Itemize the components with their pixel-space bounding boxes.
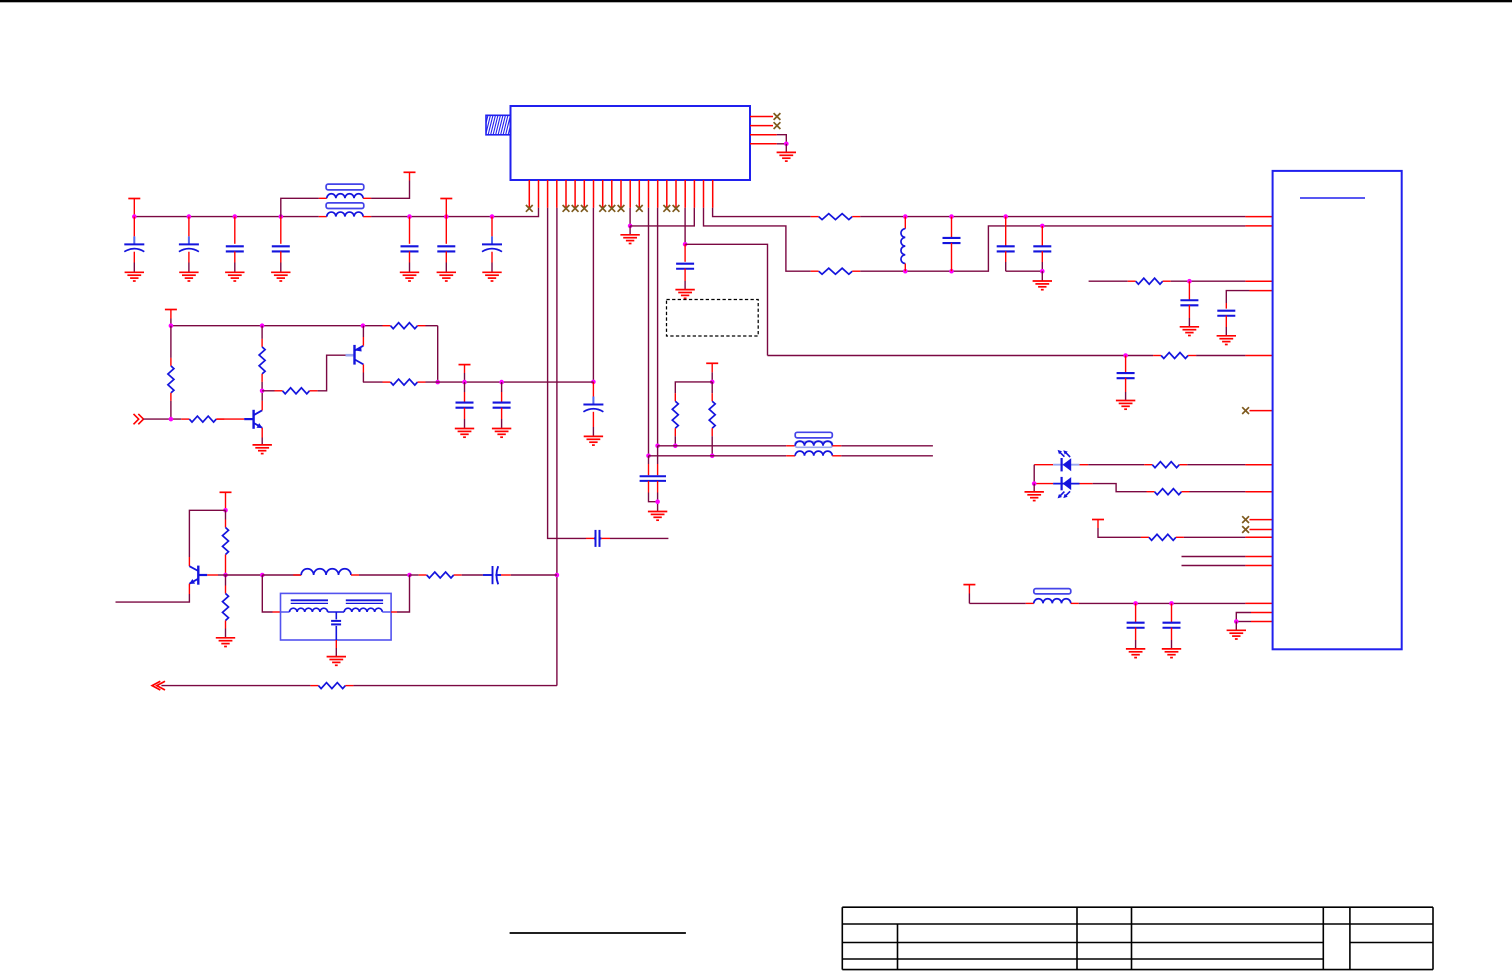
junction bottom bus C21 xyxy=(1169,601,1174,606)
ground right of U1 xyxy=(777,152,796,161)
U1 right pin 1 stub xyxy=(750,116,773,118)
capacitor C20 xyxy=(1135,603,1137,623)
wire bus2 from U1 pin20 to connector xyxy=(704,208,811,271)
wire net from U1 pin4 down to RX line xyxy=(556,208,558,686)
connector pin stub bottom bus xyxy=(1245,602,1272,604)
resistor R10 vertical xyxy=(170,326,172,358)
capacitor C13 from bus1 xyxy=(1005,217,1007,247)
ground below C16 xyxy=(455,429,474,438)
inductor L3 xyxy=(1034,599,1071,604)
connector NC pin stub y519 xyxy=(1250,519,1273,521)
ground below C21 xyxy=(1162,649,1181,658)
capacitor C23 xyxy=(1217,311,1235,316)
no-connect X on U1 bottom pin 6 xyxy=(572,205,579,212)
wire A right open end xyxy=(841,445,933,447)
transistor Q3 (NPN mirrored) xyxy=(189,566,207,585)
no-connect X on U1 bottom pin 16 xyxy=(663,205,670,212)
transformer T2 core bar xyxy=(795,432,832,438)
wire U1 pin14 down to filter wire B xyxy=(648,208,650,456)
capacitor C15 xyxy=(1125,356,1127,374)
wire power to Q3 collector xyxy=(189,510,225,557)
wire bottom bus xyxy=(969,602,1025,604)
wire rail right corner down xyxy=(437,326,439,382)
no-connect X y519 xyxy=(1242,516,1249,523)
junction rail-R12 xyxy=(260,323,265,328)
transistor Q2 (PNP) xyxy=(346,345,364,365)
no-connect X on U1 bottom pin 5 xyxy=(563,205,570,212)
wire C13 bottom to C14 bottom xyxy=(1006,270,1043,272)
T3 core lines left xyxy=(291,600,328,603)
ground below C4 xyxy=(271,272,290,281)
ground below C1 xyxy=(125,272,144,281)
resistor R12 vertical xyxy=(261,326,263,339)
junction rail-Q2 xyxy=(361,323,366,328)
junction pin4 net / C9 net xyxy=(555,573,560,578)
connector NC pin stub y410 xyxy=(1250,410,1273,412)
junction pin15/wireA xyxy=(655,444,660,449)
no-connect X on U1 bottom pin 10 xyxy=(608,205,615,212)
resistor R9 on lower run xyxy=(1153,355,1161,357)
connector ground pin A xyxy=(1251,612,1273,614)
wire RX line right to pin4 net xyxy=(353,685,557,687)
resistor R11 on rail right xyxy=(383,325,391,327)
ground below Q1 xyxy=(253,445,272,454)
junction bus2-C14 xyxy=(1040,224,1045,229)
junction mid power xyxy=(710,380,715,385)
transformer T2 winding B xyxy=(795,451,832,456)
ground below C18/C19 xyxy=(648,512,667,521)
junction D1/D2 ground net xyxy=(1032,481,1037,486)
inductor L2 between bus1 and bus2 xyxy=(904,217,906,229)
no-connect X on U1 right pin 2 xyxy=(774,122,781,129)
resistor R17 xyxy=(1144,464,1152,466)
junction pin12 ground net xyxy=(628,224,633,229)
wire pin18 net to right column xyxy=(685,244,767,355)
wire transistor rail xyxy=(171,325,383,327)
wire Q3 base to junction xyxy=(207,574,218,576)
wire R13 to Q2 base xyxy=(318,355,346,391)
junction bus2-C12 xyxy=(949,269,954,274)
junction C14 bottom xyxy=(1040,269,1045,274)
power flag Q3 block xyxy=(220,491,232,493)
capacitor C21 xyxy=(1171,603,1173,623)
ground below C7 xyxy=(482,272,501,281)
junction lower-run C15 xyxy=(1123,353,1128,358)
no-connect X on U1 bottom pin 1 xyxy=(526,205,533,212)
capacitor C4 xyxy=(280,217,282,244)
wire D1 left down to D2 junction xyxy=(1033,465,1035,484)
no-connect X on U1 bottom pin 9 xyxy=(599,205,606,212)
ground below C20 xyxy=(1126,649,1145,658)
wire U1 pin15 down to filter wire A xyxy=(657,208,659,446)
power flag VCC left xyxy=(128,198,140,200)
wire filter tap down to T3 xyxy=(262,575,272,612)
junction R20-C22 xyxy=(1187,279,1192,284)
transistor Q1 (NPN) xyxy=(244,410,262,429)
capacitor C17 xyxy=(501,382,503,392)
U1 bottom pins xyxy=(529,180,712,208)
wire bus1 from U1 pin21 to connector xyxy=(713,208,811,217)
resistor R7 on bus1 xyxy=(811,216,819,218)
wire R20 to connector xyxy=(1171,280,1246,282)
no-connect X on U1 right pin 1 xyxy=(774,113,781,120)
U1 right pin 4 stub xyxy=(750,143,777,145)
ground below C2 xyxy=(179,272,198,281)
no-connect X y410 xyxy=(1242,407,1249,414)
junction bus1-C12 xyxy=(949,214,954,219)
connector ground pin B xyxy=(1251,621,1273,623)
junction bus1-L2 xyxy=(903,214,908,219)
wire RX line xyxy=(161,685,310,687)
ground below C6 xyxy=(437,272,456,281)
connector J1 label underline xyxy=(1300,197,1365,199)
resistor R18 xyxy=(1147,491,1155,493)
ground below C17 xyxy=(492,429,511,438)
wire R17 to connector xyxy=(1187,464,1245,466)
wire Q2 emitter up to rail xyxy=(362,337,364,346)
resistor R16 vertical xyxy=(711,382,713,393)
no-connect X on U1 bottom pin 13 xyxy=(636,205,643,212)
ground below LEDs xyxy=(1025,492,1044,501)
wire D1 right to R17 xyxy=(1080,464,1089,466)
power flag VCC transistor rail xyxy=(165,309,177,311)
junction bottom bus C20 xyxy=(1133,601,1138,606)
ground below C10 xyxy=(584,436,603,445)
IC U1 body xyxy=(511,106,751,180)
wire Q1 emitter to ground xyxy=(261,428,263,438)
wire power flag to R19 xyxy=(1098,528,1141,537)
wire to ground xyxy=(785,144,787,153)
wire net from U1 pin8 down xyxy=(592,208,594,382)
transformer L1 core bar top xyxy=(326,184,364,190)
capacitor C16 xyxy=(464,382,466,392)
junction bus1-C13 xyxy=(1003,214,1008,219)
connector NC pin stub y529 xyxy=(1250,529,1273,531)
capacitor C10 (polarized) below pin8 net xyxy=(592,382,594,397)
power flag on output net xyxy=(459,364,471,366)
junction bus-C4 xyxy=(279,214,284,219)
capacitor C3 xyxy=(234,217,236,244)
no-connect X y529 xyxy=(1242,526,1249,533)
wire base junction to L4 xyxy=(226,574,263,576)
power flag mid resistors xyxy=(706,362,718,364)
inductor L3 core bar xyxy=(1034,589,1071,594)
wire R23 to C24 xyxy=(462,574,483,576)
resistor R8 on bus2 lower run xyxy=(811,270,819,272)
junction output-C16 xyxy=(462,380,467,385)
connector pin stub R19 net xyxy=(1245,536,1272,538)
wire rail right of R11 xyxy=(426,325,438,327)
capacitor C2 (polarized) xyxy=(188,217,190,237)
wire U1 pin12 to ground xyxy=(629,208,631,226)
wire output net to pin8 junction xyxy=(426,381,594,383)
input chevron arrow xyxy=(134,414,144,424)
capacitor C14 from bus2 xyxy=(1041,226,1043,247)
junction R16-wireB xyxy=(710,454,715,459)
capacitor C7 (polarized) xyxy=(491,217,493,237)
junction R12-Q1-R13 xyxy=(260,389,265,394)
junction Q3 power xyxy=(223,508,228,513)
resistor R13b lower to output xyxy=(363,381,383,383)
junction L4-R23-T3 xyxy=(407,573,412,578)
ground below C5 xyxy=(400,272,419,281)
node junction right of U1 xyxy=(784,142,789,147)
T3 core lines right xyxy=(346,600,383,603)
filter module T3 box xyxy=(281,593,392,640)
connector pin stub D1 net xyxy=(1245,464,1272,466)
wire U1 pin18 down xyxy=(684,208,686,245)
T3 winding right xyxy=(344,608,382,612)
series capacitor C24 (polarized) xyxy=(483,566,501,584)
transformer T2 winding A xyxy=(795,441,832,446)
series capacitor C8 xyxy=(596,530,600,547)
resistor R19 xyxy=(1141,536,1149,538)
wire input to R14 xyxy=(144,418,182,420)
no-connect X on U1 bottom pin 11 xyxy=(618,205,625,212)
wire Q2 collector down xyxy=(362,364,364,372)
capacitor C6 xyxy=(445,217,447,244)
power flag above L1 xyxy=(404,171,416,173)
capacitor C11 below pin18 junction xyxy=(684,244,686,261)
ground below C23 xyxy=(1217,336,1236,345)
junction R11-R13 output xyxy=(435,380,440,385)
power flag bottom bus xyxy=(963,584,975,586)
ground below R22 xyxy=(216,638,235,647)
junction bus-C3 xyxy=(233,214,238,219)
connector pin stub y281 xyxy=(1245,280,1272,282)
junction base net filter tap xyxy=(260,573,265,578)
junction bus-C1 xyxy=(132,214,137,219)
ground below T3 xyxy=(327,657,346,666)
ground below pin12 xyxy=(620,235,639,244)
connector pin stub bus1 xyxy=(1245,216,1272,218)
output chevron arrow left xyxy=(152,681,165,690)
wire VCC bus left of transformer xyxy=(134,216,318,218)
capacitor C5 xyxy=(409,217,411,244)
inductor L4 xyxy=(262,574,301,576)
junction connector ground xyxy=(1234,619,1239,624)
resistor R20 xyxy=(1128,280,1136,282)
no-connect X on U1 bottom pin 7 xyxy=(581,205,588,212)
T3 winding left xyxy=(281,611,290,613)
wire C24 to pin4 net xyxy=(511,574,557,576)
wire L4 to R23 xyxy=(359,574,410,576)
title block frame xyxy=(842,907,1433,969)
resistor R14 horizontal xyxy=(181,418,189,420)
wire VCC bus left (pin2 of U1 to left rail) xyxy=(371,208,538,217)
wire L3 to connector xyxy=(1079,602,1246,604)
capacitor C22 xyxy=(1188,281,1190,300)
top border bar xyxy=(0,0,1512,2)
wire pin18-net lower run to connector xyxy=(768,355,1154,357)
ground below C22 xyxy=(1180,327,1199,336)
transformer L1 secondary winding on bus xyxy=(319,216,327,218)
wire net from U1 pin3 (series cap net) xyxy=(548,208,586,539)
wire B (lower) to transformer T2 xyxy=(649,455,787,457)
wire antenna net y281 xyxy=(1089,280,1128,282)
ground below C15 xyxy=(1116,401,1135,410)
transformer L1 primary winding xyxy=(319,197,327,199)
junction Q3 base net xyxy=(223,573,228,578)
wire T3 center tap to ground xyxy=(335,640,337,648)
no-connect X on U1 bottom pin 17 xyxy=(673,205,680,212)
resistor R21 vertical xyxy=(225,510,227,519)
U1 right pin 3 stub xyxy=(750,134,777,136)
wire bus2 right of R8 xyxy=(860,226,1245,271)
wire B right open end xyxy=(841,455,933,457)
wire U1 pin19 to pin12 net xyxy=(630,208,694,226)
wire right of C8 xyxy=(610,537,668,539)
wire lower run right of R9 xyxy=(1196,355,1245,357)
wire T3 right out xyxy=(391,611,397,613)
wire bus1 right of R7 xyxy=(860,216,1245,218)
resistor R15 vertical xyxy=(674,393,676,401)
junction rail-R10 xyxy=(169,323,174,328)
resistor R23 xyxy=(410,574,419,576)
wire power to R15 top xyxy=(675,382,712,393)
capacitor C1 (polarized) xyxy=(133,217,135,237)
connector pin stub lower run xyxy=(1245,355,1272,357)
resistor R22 below base junction xyxy=(225,575,227,586)
wire L1 primary right to power flag xyxy=(371,181,409,199)
crystal hatched block Y1 xyxy=(483,114,513,135)
wire R18 to connector xyxy=(1190,491,1246,493)
LED D1 xyxy=(1034,464,1053,466)
wire D2 right to R18 xyxy=(1080,483,1093,485)
resistor R24 on RX line xyxy=(310,685,318,687)
junction pin18 net xyxy=(683,242,688,247)
capacitor C12 between bus1 and bus2 xyxy=(951,217,953,239)
power flag VCC at C6 xyxy=(440,198,452,200)
ground below connector pins xyxy=(1227,630,1246,639)
stub wire net1 xyxy=(1182,556,1246,558)
ground below C11 xyxy=(675,290,694,299)
junction bus-C6 xyxy=(444,214,449,219)
stub wire net2 xyxy=(1182,565,1246,567)
wire R19 to connector xyxy=(1184,536,1246,538)
connector J1 body xyxy=(1273,171,1402,649)
transformer L1 core bar bottom xyxy=(326,203,364,209)
power flag R19 net xyxy=(1092,519,1104,521)
connector pin stub y290 xyxy=(1250,290,1273,292)
connector pin stub D2 net xyxy=(1245,491,1272,493)
junction R15-wireA xyxy=(673,444,678,449)
junction C18/C19 bottom xyxy=(655,499,660,504)
junction bus-C2 xyxy=(187,214,192,219)
junction output-C17 xyxy=(499,380,504,385)
wire Q3 emitter xyxy=(188,584,190,594)
wire A (upper) to transformer T2 xyxy=(658,445,787,447)
U1 right pin 2 stub xyxy=(750,125,773,127)
wire L1 primary left to bus xyxy=(281,198,319,216)
T3 center tap and internal capacitor C25 xyxy=(328,612,345,640)
resistor R13 horizontal to Q2 base xyxy=(262,390,274,392)
ground below C14 xyxy=(1033,281,1052,290)
junction bus-C7 xyxy=(490,214,495,219)
ground below C3 xyxy=(225,272,244,281)
wire U1 pin3 to ground net xyxy=(777,135,787,144)
dashed option box xyxy=(667,300,759,337)
wire U1 pin4 to ground net xyxy=(777,143,787,145)
LED D2 xyxy=(1034,483,1053,485)
junction input-R10 xyxy=(169,417,174,422)
transformer T2 light core bar xyxy=(795,442,832,448)
junction bus-C5 xyxy=(407,214,412,219)
wire pin y290 to C23 xyxy=(1226,291,1249,303)
connector pin stub bus2 xyxy=(1245,225,1272,227)
junction bus2-L2 xyxy=(903,269,908,274)
revision underline xyxy=(510,932,686,934)
junction pin14/wireB xyxy=(646,454,651,459)
capacitor pair C18/C19 below wires A,B xyxy=(648,456,650,464)
wire Q1 collector xyxy=(261,401,263,411)
junction pin8 net xyxy=(591,380,596,385)
